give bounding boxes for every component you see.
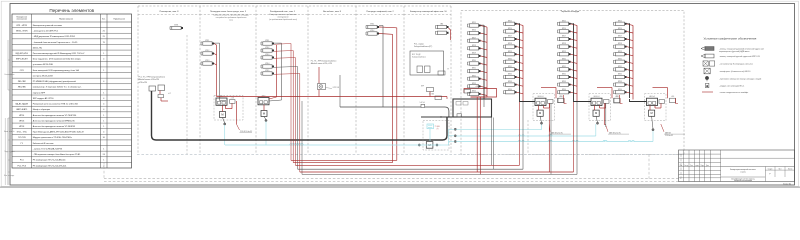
- svg-text:ИП26 - ИП76: ИП26 - ИП76: [16, 31, 28, 33]
- svg-text:УЛ: УЛ: [447, 69, 449, 71]
- svg-text:ИП34: ИП34: [618, 89, 622, 91]
- svg-text:УЛ: УЛ: [437, 128, 439, 130]
- svg-text:ИП2.3: ИП2.3: [205, 60, 209, 62]
- svg-text:1: 1: [103, 53, 104, 55]
- svg-text:ИП27: ИП27: [472, 37, 476, 39]
- svg-text:Извещатели уличной системы: Извещатели уличной системы: [33, 24, 63, 27]
- svg-text:1: 1: [103, 148, 104, 150]
- svg-text:ИП28: ИП28: [562, 43, 566, 45]
- svg-text:ИС ЛВБ: ИС ЛВБ: [429, 94, 434, 96]
- svg-text:1: 1: [103, 126, 104, 128]
- svg-text:Согласовано: Согласовано: [4, 74, 14, 76]
- svg-text:М: М: [221, 113, 223, 117]
- svg-text:ИП32: ИП32: [618, 74, 622, 76]
- svg-text:25: 25: [103, 31, 105, 33]
- svg-text:РС2, РС3: РС2, РС3: [17, 165, 26, 167]
- svg-text:ВД-В5, ВД-В8: ВД-В5, ВД-В8: [16, 104, 28, 106]
- svg-text:+24В: +24В: [231, 97, 234, 99]
- svg-text:Кол.уч: Кол.уч: [684, 165, 688, 167]
- svg-text:ЛВ1-ЛВ2: ЛВ1-ЛВ2: [18, 81, 26, 83]
- svg-text:Кабельный В составе: Кабельный В составе: [33, 142, 55, 145]
- svg-text:1: 1: [103, 120, 104, 122]
- svg-text:Листов: Листов: [788, 168, 793, 170]
- svg-text:25: 25: [103, 36, 105, 38]
- svg-text:ИП5.1: ИП5.1: [370, 24, 374, 26]
- svg-text:ИП16: ИП16: [19, 120, 24, 122]
- svg-text:Антенна беспроводного питания: Антенна беспроводного питания VT-760Р150: [33, 114, 77, 117]
- svg-text:коммутатор с 8 портами 10/100: коммутатор с 8 портами 10/100 Тх с 2 гиб…: [33, 87, 82, 89]
- svg-text:Резервный антенна кабелем ТПВ: Резервный антенна кабелем ТПВ 2х 1,5Е-5 …: [33, 103, 79, 106]
- svg-text:ИП3.5: ИП3.5: [265, 70, 269, 72]
- svg-text:- шкаф кросс (безопасности) ШК: - шкаф кросс (безопасности) ШК-10: [719, 70, 750, 73]
- svg-text:ИП26: ИП26: [508, 28, 512, 30]
- svg-text:ИП31: ИП31: [508, 66, 512, 68]
- svg-text:ИП: ИП: [560, 96, 562, 98]
- svg-text:Антенна беспроводного питания: Антенна беспроводного питания ВРМ30-Л5: [33, 119, 76, 122]
- svg-text:Условные графические обозначен: Условные графические обозначения: [704, 37, 757, 41]
- svg-text:ИП25: ИП25: [508, 20, 512, 22]
- svg-text:ИПР1-И5-ИП: ИПР1-И5-ИП: [16, 59, 28, 61]
- svg-text:ИВ1: ИВ1: [440, 24, 443, 26]
- svg-text:ИП27: ИП27: [562, 36, 566, 38]
- svg-text:ИП28: ИП28: [508, 43, 512, 45]
- svg-text:ЛВ3-ЛВ5: ЛВ3-ЛВ5: [18, 87, 26, 89]
- svg-text:75: 75: [103, 42, 105, 44]
- svg-text:ИП34: ИП34: [472, 91, 476, 93]
- svg-text:Примечание: Примечание: [113, 18, 125, 20]
- svg-text:- извещатель 2151ЕР-РС1: - извещатель 2151ЕР-РС1: [33, 31, 59, 33]
- svg-text:ГчВ ГчВ: ГчВ ГчВ: [420, 102, 425, 104]
- svg-text:Ретейджовый пом., пом. 1: Ретейджовый пом., пом. 1: [270, 10, 296, 13]
- svg-text:ИП33: ИП33: [508, 81, 512, 83]
- svg-text:ИП34: ИП34: [508, 89, 512, 91]
- svg-text:- сигнализатор ЗС (передача си: - сигнализатор ЗС (передача сигнала): [719, 63, 753, 65]
- svg-text:+24В: +24В: [671, 96, 674, 98]
- svg-text:- модуль сигнализации МС-1: - модуль сигнализации МС-1: [719, 85, 744, 87]
- svg-text:М: М: [651, 111, 653, 115]
- svg-text:М: М: [595, 111, 597, 115]
- svg-text:ИП: ИП: [616, 96, 618, 98]
- svg-text:ИОП1: ИОП1: [174, 25, 178, 27]
- svg-text:ИП27: ИП27: [508, 36, 512, 38]
- svg-text:1: 1: [103, 70, 104, 72]
- svg-text:Коммутация пожарной сигнализ.: Коммутация пожарной сигнализ.: [730, 168, 756, 171]
- svg-text:ГУЗ-ГУВ: ГУЗ-ГУВ: [18, 137, 26, 139]
- svg-text:- брелюмен извещения пожарн.об: - брелюмен извещения пожарн.обнаруж. общ…: [719, 77, 761, 80]
- svg-text:Инв. № подл.: Инв. № подл.: [4, 174, 15, 177]
- svg-text:пУЛ: пУЛ: [168, 93, 171, 95]
- svg-text:- извещ. пожарный ручной адрес: - извещ. пожарный ручной адресный ИПР-51…: [719, 55, 760, 58]
- svg-text:ИП1 - ИП25: ИП1 - ИП25: [16, 25, 27, 27]
- svg-text:Albaho6 школа пУЛ6, пУЛ6: Albaho6 школа пУЛ6, пУЛ6: [311, 62, 332, 65]
- svg-text:перемещения (русский) АДВ-мини: перемещения (русский) АДВ-мини: [719, 50, 749, 53]
- svg-text:ИС1 ТК+ДК: ИС1 ТК+ДК: [412, 54, 421, 56]
- svg-text:Изм: Изм: [680, 165, 683, 167]
- svg-text:Площадка лифтовой, пом. 2: Площадка лифтовой, пом. 2: [366, 10, 394, 13]
- svg-text:ОП: ОП: [433, 140, 435, 142]
- svg-text:ИП31: ИП31: [472, 68, 476, 70]
- svg-text:РС1, сервер: РС1, сервер: [414, 44, 424, 46]
- svg-text:- базовый блок монтажа Газрте: - базовый блок монтажа Газртехн.конт. - …: [33, 41, 78, 44]
- svg-text:Приз Извещания ДВП5-ЗРУ1-В1-ВЫ: Приз Извещания ДВП5-ЗРУ1-В1-ВЫ.ПРЗ-ВО.5-…: [33, 132, 84, 134]
- svg-text:(5651-ТК): (5651-ТК): [33, 47, 42, 49]
- svg-text:М: М: [263, 112, 265, 116]
- svg-text:РТ-И5ВЕОР-НЕ (обрудование) раз: РТ-И5ВЕОР-НЕ (обрудование) разобранный: [33, 80, 77, 83]
- svg-text:ИП33: ИП33: [562, 81, 566, 83]
- svg-text:SFP модуль АТ-СП50: SFP модуль АТ-СП50: [33, 97, 55, 100]
- svg-text:УОЗ-ЗС-1 6м 3С: УОЗ-ЗС-1 6м 3С: [240, 131, 253, 133]
- svg-text:Albaho6 школа пУЛ6-пУЛ6: Albaho6 школа пУЛ6-пУЛ6: [139, 78, 160, 81]
- svg-text:- извещ. пожарный дымовой опти: - извещ. пожарный дымовой оптический адр…: [719, 47, 764, 50]
- svg-text:ИП27: ИП27: [618, 36, 622, 38]
- svg-text:ИП30: ИП30: [562, 58, 566, 60]
- svg-text:ИП26: ИП26: [618, 28, 622, 30]
- svg-text:РС1: РС1: [20, 160, 24, 162]
- svg-text:УОЗ 6м 3С: УОЗ 6м 3С: [665, 135, 674, 137]
- svg-text:пУЛ6-пУЛ6: пУЛ6-пУЛ6: [139, 82, 148, 84]
- svg-text:ШВГ1-ШВГ5: ШВГ1-ШВГ5: [16, 109, 27, 111]
- svg-text:ИП26: ИП26: [472, 30, 476, 32]
- svg-text:ИП5.2: ИП5.2: [370, 30, 374, 32]
- svg-text:ИП31: ИП31: [618, 66, 622, 68]
- svg-text:ИП28: ИП28: [618, 43, 622, 45]
- svg-text:ИП30: ИП30: [472, 60, 476, 62]
- svg-text:ИПР 51В: ИПР 51В: [333, 87, 339, 89]
- svg-text:- ПВ переключ.камеры блок Азов: - ПВ переключ.камеры блок Азов быстрого …: [33, 153, 82, 156]
- svg-text:Блок задымлен. (Л В порвежение: Блок задымлен. (Л В порвежение blok) Без…: [33, 59, 82, 61]
- svg-text:ИП30: ИП30: [618, 58, 622, 60]
- svg-text:ИПР: ИПР: [421, 86, 424, 88]
- svg-text:РК коммутация ПУ-У1-2х2-6ГХ-4х: РК коммутация ПУ-У1-2х2-6ГХ-4х1: [33, 165, 68, 167]
- svg-text:ИП33: ИП33: [618, 81, 622, 83]
- svg-text:1: 1: [103, 160, 104, 162]
- svg-text:ИП2.1: ИП2.1: [205, 40, 209, 42]
- svg-text:ИП3.4: ИП3.4: [265, 63, 269, 65]
- svg-text:ИП29: ИП29: [562, 51, 566, 53]
- svg-text:+24В: +24В: [475, 86, 479, 88]
- svg-text:ИП32: ИП32: [562, 74, 566, 76]
- svg-text:1: 1: [103, 92, 104, 94]
- svg-text:- линия соединительная шлейфа: - линия соединительная шлейфа: [719, 91, 749, 94]
- svg-text:портало SFP: портало SFP: [33, 92, 46, 94]
- svg-text:настройка без требования бараб: настройка без требования барабанная: [216, 16, 247, 19]
- svg-text:ЗУ11 - ЗУ5с: ЗУ11 - ЗУ5с: [16, 132, 27, 134]
- svg-text:Лист: Лист: [779, 168, 782, 170]
- svg-text:ИП26: ИП26: [562, 28, 566, 30]
- svg-text:Лист: Лист: [690, 165, 693, 167]
- svg-text:зона: зона: [229, 20, 233, 22]
- svg-text:1: 1: [103, 115, 104, 117]
- svg-text:ИП31: ИП31: [562, 66, 566, 68]
- svg-text:ИП33: ИП33: [472, 83, 476, 85]
- svg-text:РС, ТК + НРК Каблукоблайблинк: РС, ТК + НРК Каблукоблайблинк: [311, 60, 337, 63]
- svg-text:Дата: Дата: [706, 165, 709, 167]
- svg-text:№док: №док: [695, 165, 699, 167]
- svg-text:ИП28: ИП28: [472, 45, 476, 47]
- svg-text:ИП2.2: ИП2.2: [205, 50, 209, 52]
- svg-text:ИП32: ИП32: [472, 75, 476, 77]
- svg-text:ИП29: ИП29: [618, 51, 622, 53]
- svg-text:ИП25: ИП25: [562, 20, 566, 22]
- svg-text:контроль ИС16-2018: контроль ИС16-2018: [33, 75, 54, 77]
- svg-text:Антенна беспроводного питания: Антенна беспроводного питания VT-560Р65: [33, 125, 76, 128]
- svg-text:ИП3.1: ИП3.1: [265, 40, 269, 42]
- svg-text:РК коммутация ПУ-У1-2х2-ВВ-4х1: РК коммутация ПУ-У1-2х2-ВВ-4х1: [33, 160, 67, 162]
- svg-text:ИП3.2: ИП3.2: [265, 47, 269, 49]
- svg-text:ОП1: ОП1: [20, 70, 24, 72]
- svg-text:- кабель ГУ-ГЗ-780-ВВ-П-6РЗЗ: - кабель ГУ-ГЗ-780-ВВ-П-6РЗЗ: [33, 148, 63, 150]
- svg-text:Площадка возле балюстрады, пом: Площадка возле балюстрады, пом. 5: [210, 11, 247, 13]
- svg-text:Блок пожарный 24 В паровоежд.м: Блок пожарный 24 В паровоежд.межд. блок …: [33, 69, 80, 72]
- svg-text:ИП32: ИП32: [508, 74, 512, 76]
- svg-text:ИД5,ИУ5,ИУ6: ИД5,ИУ5,ИУ6: [16, 53, 28, 55]
- svg-text:установка ИС14-20В: установка ИС14-20В: [33, 64, 54, 66]
- svg-text:РС1, ТК + НРК Каблукоблайблинк: РС1, ТК + НРК Каблукоблайблинк: [139, 76, 166, 79]
- svg-text:Каблукоблайблинк (РГ): Каблукоблайблинк (РГ): [414, 45, 433, 48]
- svg-text:Расключ.извещат.ручной IP-Изве: Расключ.извещат.ручной IP-Извещержу 6151…: [33, 52, 85, 55]
- svg-text:М: М: [539, 111, 541, 115]
- svg-text:и греем: и греем: [740, 172, 745, 174]
- svg-text:Помещение, пом. 8: Помещение, пом. 8: [160, 11, 180, 13]
- svg-text:Наименование: Наименование: [59, 18, 74, 20]
- svg-text:ИП34: ИП34: [562, 89, 566, 91]
- svg-text:ИП25: ИП25: [472, 22, 476, 24]
- svg-text:ИП3.3: ИП3.3: [265, 54, 269, 56]
- svg-text:Подп: Подп: [701, 165, 704, 167]
- svg-text:Торговые площади: Торговые площади: [561, 11, 580, 13]
- svg-text:Стадия: Стадия: [768, 168, 773, 170]
- svg-text:ИП18: ИП18: [19, 126, 24, 128]
- svg-text:Перечень элементов: Перечень элементов: [49, 8, 94, 13]
- svg-text:Модуль презначался ТР-ИЗ6-.780: Модуль презначался ТР-ИЗ6-.780-Р305с: [33, 137, 72, 139]
- svg-text:обозначение: обозначение: [17, 19, 27, 21]
- svg-text:(за требованием барабанной зон: (за требованием барабанной зоны): [269, 18, 297, 21]
- svg-text:Вестибюль, пом. 8: Вестибюль, пом. 8: [323, 11, 342, 13]
- svg-text:ИП29: ИП29: [508, 51, 512, 53]
- svg-text:Шкаф с образцом: Шкаф с образцом: [33, 108, 51, 111]
- svg-text:ИП25: ИП25: [618, 20, 622, 22]
- svg-text:10: 10: [103, 137, 105, 139]
- svg-text:ЦЕВ: ЦЕВ: [437, 126, 440, 128]
- svg-text:Взам. инв. №: Взам. инв. №: [4, 130, 15, 133]
- svg-text:ИП30: ИП30: [508, 58, 512, 60]
- svg-text:Кол.: Кол.: [102, 18, 106, 20]
- svg-text:ИП29: ИП29: [472, 53, 476, 55]
- svg-text:- ИБД держателя IP-извещателя: - ИБД держателя IP-извещателя 6151-РСБ1: [33, 36, 76, 38]
- svg-text:Коммутатор помещений офис пом.: Коммутатор помещений офис пом. 10: [410, 10, 448, 13]
